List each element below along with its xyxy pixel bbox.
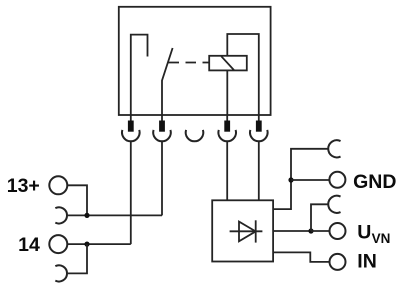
wire terminal4 down to diode module	[226, 141, 228, 200]
junction GND net	[288, 177, 293, 182]
wire clamp arc to 14 junction	[67, 244, 87, 273]
wire GND net from module	[273, 149, 328, 209]
terminal circle 14	[49, 235, 67, 253]
label UVN	[357, 222, 390, 247]
svg-text:U: U	[357, 222, 371, 244]
wire terminal2 down to 13+ net	[161, 141, 163, 215]
NO contact fixed terminal	[131, 35, 148, 115]
svg-text:VN: VN	[372, 231, 391, 246]
svg-text:IN: IN	[357, 250, 377, 272]
clamp arc above UVN	[328, 196, 340, 213]
clamp arc below 14	[55, 265, 67, 281]
junction 14 net	[84, 242, 89, 247]
relay enclosure	[119, 7, 271, 115]
coil bottom wire	[226, 70, 228, 115]
clamp arc below 13+	[55, 207, 67, 223]
junction UVN net	[308, 228, 313, 233]
terminal circle UVN	[330, 223, 346, 239]
wire junction up to clamp arc	[311, 204, 328, 231]
coil top wire	[227, 34, 258, 115]
wire 13+ circle to junction	[67, 185, 87, 215]
junction 13+ net	[84, 213, 89, 218]
wire junction to GND circle	[291, 179, 329, 181]
terminal circle IN	[330, 254, 346, 270]
wire terminal1 down to 14 net	[130, 141, 132, 244]
terminal 2 (plug + socket)	[153, 115, 171, 141]
relay coil	[209, 56, 247, 71]
clamp arc above GND	[328, 140, 340, 157]
terminal 3 socket (unused)	[186, 130, 204, 141]
diode module	[212, 200, 273, 261]
coil actuation link (dashed)	[169, 62, 210, 64]
diode D1	[230, 220, 263, 242]
wire junction to UVN circle	[311, 230, 330, 232]
terminal 5 (plug + socket)	[250, 115, 268, 141]
svg-text:14: 14	[18, 234, 40, 256]
wire terminal5 down to diode module	[258, 141, 260, 200]
svg-text:13+: 13+	[7, 175, 40, 197]
wire UVN net from module	[273, 230, 311, 232]
wire 13+ net horizontal	[67, 214, 162, 216]
terminal circle GND	[329, 172, 345, 188]
terminal 1 (plug + socket)	[122, 115, 140, 141]
NO contact movable lever	[162, 48, 173, 115]
terminal 4 (plug + socket)	[218, 115, 236, 141]
svg-text:GND: GND	[353, 171, 396, 193]
wire 14 net horizontal	[67, 243, 131, 245]
terminal circle 13+	[49, 176, 67, 194]
wire IN net from module	[273, 252, 329, 262]
